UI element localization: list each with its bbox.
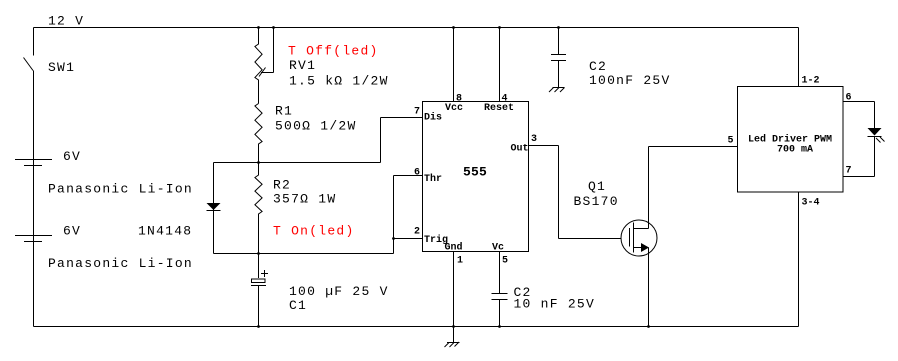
diode D1 1N4148 wire	[213, 163, 215, 254]
op-amp U2 Led Driver PWM box	[738, 87, 844, 193]
svg-text:5: 5	[502, 256, 508, 267]
svg-text:BS170: BS170	[574, 194, 619, 209]
svg-text:555: 555	[463, 165, 487, 180]
wire C2 to ground rail	[499, 300, 501, 327]
svg-text:T Off(led): T Off(led)	[288, 44, 379, 59]
wire Q1 source to ground rail	[648, 248, 650, 327]
svg-text:RV1: RV1	[289, 58, 316, 73]
wire Thr/Trig bottom junction	[214, 253, 394, 255]
pin 1 Gnd wire	[453, 252, 455, 327]
svg-text:Reset: Reset	[484, 103, 514, 114]
svg-text:7: 7	[846, 166, 852, 177]
svg-text:1.5 kΩ 1/2W: 1.5 kΩ 1/2W	[289, 74, 389, 89]
svg-text:Panasonic Li-Ion: Panasonic Li-Ion	[48, 256, 193, 271]
svg-text:Panasonic Li-Ion: Panasonic Li-Ion	[48, 182, 193, 197]
svg-text:Out: Out	[511, 144, 529, 155]
wire bottom rail	[34, 326, 799, 328]
wire R1/R2 junction horizontal	[214, 162, 381, 164]
wire C1 to ground rail	[258, 286, 260, 327]
capacitor C2 10nF	[492, 294, 508, 300]
svg-text:7: 7	[414, 107, 420, 118]
svg-text:Dis: Dis	[424, 112, 442, 124]
node R1/R2 junction	[257, 161, 260, 164]
svg-text:1-2: 1-2	[802, 76, 820, 87]
capacitor C2 100nF wire	[558, 28, 560, 55]
svg-text:1N4148: 1N4148	[138, 224, 192, 239]
svg-text:6: 6	[846, 93, 852, 104]
svg-text:6: 6	[414, 168, 420, 179]
svg-text:R1: R1	[275, 104, 293, 119]
wire driver pin 3-4 to ground rail	[798, 192, 800, 327]
switch SW1	[24, 58, 34, 71]
capacitor C1 plus sign	[261, 270, 268, 277]
wire Thr riser	[394, 176, 424, 254]
transistor Q1 BS170	[621, 220, 657, 256]
diode D1 1N4148	[207, 203, 221, 211]
svg-text:700 mA: 700 mA	[777, 145, 813, 156]
svg-text:C2: C2	[589, 59, 607, 74]
svg-text:Vc: Vc	[492, 243, 504, 254]
node R2 bottom junction	[257, 252, 260, 255]
svg-text:C1: C1	[289, 298, 307, 313]
wire driver pin 6 to LED	[843, 102, 875, 129]
svg-text:1: 1	[457, 256, 463, 267]
ground chassis bottom rail	[445, 327, 460, 348]
svg-text:100nF 25V: 100nF 25V	[589, 73, 671, 88]
svg-text:5: 5	[728, 136, 734, 147]
battery B2 6V	[15, 236, 52, 242]
svg-text:500Ω 1/2W: 500Ω 1/2W	[275, 119, 357, 134]
svg-text:6V: 6V	[63, 224, 81, 239]
svg-text:Vcc: Vcc	[445, 103, 463, 114]
node bottom rail junction dots	[257, 325, 650, 328]
resistor R2	[255, 163, 262, 254]
battery B1 6V	[15, 160, 52, 166]
svg-text:Thr: Thr	[424, 173, 442, 185]
wire C2 100nF to ground	[558, 61, 560, 88]
wire 12V top rail	[34, 27, 799, 29]
RV1 wiper arrow	[259, 28, 274, 77]
pin 5 Vc wire	[499, 252, 501, 294]
wire LED to driver pin 7	[843, 136, 875, 177]
wire driver pin 1-2 to rail	[798, 28, 800, 87]
wire Trig pin 2	[394, 238, 424, 240]
node Trig junction	[392, 237, 395, 240]
svg-text:3-4: 3-4	[802, 198, 820, 209]
svg-text:10 nF 25V: 10 nF 25V	[514, 297, 596, 312]
svg-text:T On(led): T On(led)	[273, 224, 355, 239]
svg-text:3: 3	[531, 134, 537, 145]
svg-text:8: 8	[456, 94, 462, 105]
wire junction to Dis pin 7	[381, 118, 424, 163]
capacitor C1 100uF wire top	[258, 254, 260, 279]
svg-text:Q1: Q1	[588, 179, 606, 194]
node 12V rail junction dots	[257, 26, 560, 29]
svg-text:6V: 6V	[63, 149, 81, 164]
wire Q1 drain to driver pin 5	[649, 147, 738, 229]
wire left branch to switch	[33, 28, 35, 56]
svg-text:12 V: 12 V	[48, 14, 84, 29]
capacitor C2 100nF	[551, 55, 566, 61]
svg-text:357Ω 1W: 357Ω 1W	[273, 192, 336, 207]
LED D2	[868, 128, 885, 143]
capacitor C1 100uF	[251, 279, 266, 286]
resistor R1	[255, 104, 262, 163]
pin 3 Out wire	[529, 146, 630, 239]
svg-text:SW1: SW1	[48, 60, 75, 75]
potentiometer RV1	[255, 28, 262, 104]
wire switch to battery	[33, 71, 35, 327]
svg-text:4: 4	[502, 94, 508, 105]
svg-text:100 µF 25 V: 100 µF 25 V	[289, 284, 389, 299]
op-amp U1 555 box	[423, 102, 529, 252]
svg-text:Gnd: Gnd	[445, 242, 463, 254]
pin 4 Reset wire	[499, 28, 501, 102]
ground chassis under C2	[549, 88, 565, 93]
svg-text:R2: R2	[273, 178, 291, 193]
svg-text:2: 2	[414, 227, 420, 238]
pin 8 Vcc wire	[453, 28, 455, 102]
